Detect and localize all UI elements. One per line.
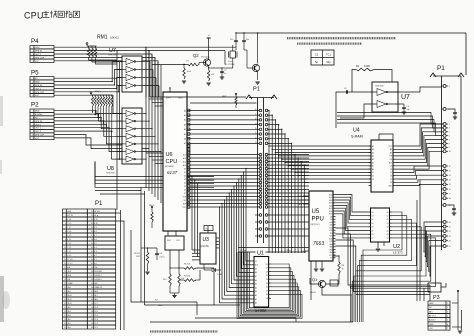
svg-text:D6: D6: [266, 271, 268, 273]
staircase wire to U4: [269, 145, 371, 147]
staircase wire to U4: [275, 152, 371, 154]
wire bottom long: [150, 321, 353, 323]
svg-text:D5: D5: [266, 275, 268, 277]
bottom caption (simulated tiny text): [150, 330, 218, 332]
svg-text:25: 25: [449, 246, 451, 248]
svg-text:VCC: VCC: [35, 61, 40, 63]
scan artifacts: [0, 96, 3, 126]
staircase wire to U4: [304, 181, 371, 183]
svg-text:Q2: Q2: [193, 53, 199, 58]
svg-text:C1: C1: [255, 261, 257, 263]
buffer U8 (74HC368): [122, 108, 142, 164]
svg-text:11: 11: [449, 166, 451, 168]
svg-text:VCC: VCC: [35, 138, 40, 140]
svg-text:A5: A5: [372, 151, 374, 154]
svg-text:A4: A4: [184, 128, 186, 131]
diode D1: [203, 264, 205, 270]
svg-text:40PT: 40PT: [166, 98, 172, 100]
svg-text:P5: P5: [31, 70, 39, 77]
wires P4 to oscillator: [146, 46, 236, 48]
svg-text:U7: U7: [401, 94, 410, 101]
bus verticals to U4/PPU: [268, 111, 270, 254]
svg-text:A2: A2: [372, 161, 374, 164]
svg-text:R/W: R/W: [183, 196, 187, 198]
svg-text:CP 3A0: CP 3A0: [240, 249, 246, 252]
svg-text:A0: A0: [184, 109, 186, 112]
svg-text:9: 9: [449, 147, 450, 149]
svg-text:U7: U7: [109, 48, 116, 54]
svg-text:12: 12: [449, 170, 451, 172]
svg-text:PD 1: PD 1: [94, 327, 98, 329]
svg-text:Q2: Q2: [386, 219, 388, 221]
svg-text:I/4: I/4: [390, 182, 392, 184]
svg-text:1k: 1k: [342, 269, 344, 271]
wire vertical: [148, 51, 150, 191]
wires from P5 to U7 inputs: [54, 77, 117, 79]
svg-text:24: 24: [255, 137, 257, 139]
svg-text:D3: D3: [372, 223, 374, 225]
svg-text:GND: GND: [178, 98, 183, 100]
U4 top pin: [378, 134, 380, 140]
CPU right pins bus B: [187, 154, 191, 156]
svg-text:D1: D1: [266, 290, 268, 292]
bus wires CPU to P1 group A: [190, 110, 260, 112]
svg-text:A6: A6: [372, 148, 374, 151]
svg-text:13: 13: [449, 175, 451, 177]
svg-text:NMI: NMI: [183, 203, 187, 205]
CPU top pin: [169, 88, 171, 92]
svg-text:OE: OE: [266, 298, 268, 300]
svg-text:U1: U1: [257, 251, 264, 257]
svg-text:LS 373: LS 373: [393, 251, 403, 255]
svg-text:A12: A12: [183, 153, 186, 156]
wire vertical: [157, 62, 159, 200]
staircase wire to U4: [279, 155, 371, 157]
wires into CPU left pins: [149, 98, 163, 100]
staircase wire to U4: [301, 178, 371, 180]
svg-text:AUDIO: AUDIO: [429, 319, 436, 322]
small box PZ: [330, 280, 338, 286]
resistor R 100k: [183, 64, 184, 65]
svg-text:12 9a: 12 9a: [286, 250, 291, 252]
svg-text:6137: 6137: [167, 170, 178, 175]
svg-text:4: 4: [449, 128, 450, 130]
wire above U1: [238, 251, 306, 253]
U3 pins: [192, 249, 200, 251]
svg-text:3: 3: [449, 124, 450, 126]
svg-text:PA 2: PA 2: [67, 318, 70, 321]
wire CPU top to rail: [190, 102, 257, 104]
PPU right pins: [333, 194, 336, 196]
svg-text:PPU: PPU: [312, 217, 324, 223]
resistor emitter Q2: [208, 66, 210, 71]
svg-text:Q3: Q3: [386, 223, 388, 225]
svg-text:22: 22: [449, 231, 451, 233]
bus wires CPU to P1 group B: [190, 154, 260, 156]
svg-text:D0: D0: [372, 212, 374, 214]
svg-text:PA 6: PA 6: [94, 298, 97, 301]
svg-text:1: 1: [449, 86, 450, 88]
svg-text:21.47727M: 21.47727M: [225, 64, 235, 66]
svg-text:26: 26: [255, 128, 257, 130]
svg-text:74HC368: 74HC368: [108, 55, 117, 57]
svg-text:100K: 100K: [364, 64, 370, 68]
svg-text:D7: D7: [266, 268, 268, 270]
capacitor 22u: [235, 33, 237, 40]
svg-text:D4: D4: [266, 279, 268, 281]
U2 output loops: [363, 212, 402, 322]
wire staircase below P2: [95, 163, 214, 177]
wire to PPU left stub: [268, 228, 309, 230]
svg-text:I/1: I/1: [372, 172, 374, 174]
wire above U1 second: [238, 247, 309, 249]
svg-text:C1: C1: [315, 53, 319, 57]
svg-text:D3: D3: [184, 179, 186, 181]
svg-text:24: 24: [449, 240, 451, 242]
svg-text:17: 17: [449, 193, 451, 195]
svg-text:1-2M: 1-2M: [217, 274, 222, 276]
svg-text:D0: D0: [184, 168, 186, 170]
svg-text:M2: M2: [184, 200, 186, 202]
svg-text:D6: D6: [372, 234, 374, 236]
IC box below CPU (clock divider): [165, 236, 184, 250]
svg-text:15: 15: [449, 184, 451, 186]
svg-text:PA 12: PA 12: [67, 302, 71, 305]
svg-text:PA 10: PA 10: [67, 294, 71, 297]
wire +5V rail top: [236, 32, 466, 34]
svg-text:VRAM /CS: VRAM /CS: [94, 286, 103, 289]
svg-text:R/W: R/W: [299, 196, 303, 198]
svg-text:PA 3: PA 3: [67, 314, 70, 317]
svg-text:D1: D1: [184, 172, 186, 174]
svg-text:D6: D6: [184, 189, 186, 191]
svg-text:S-RAM: S-RAM: [351, 135, 363, 139]
staircase wire to U4: [282, 158, 371, 160]
svg-text:R4 20k: R4 20k: [184, 276, 190, 278]
svg-text:7: 7: [447, 328, 448, 330]
svg-text:CRAM: CRAM: [67, 282, 73, 285]
capacitor 15p: [243, 33, 245, 40]
svg-text:U3: U3: [203, 237, 210, 243]
svg-text:(LS139): (LS139): [201, 246, 209, 248]
svg-text:D0: D0: [266, 294, 268, 296]
svg-text:A10: A10: [389, 161, 392, 164]
svg-text:CLK: CLK: [176, 240, 181, 242]
svg-text:U5: U5: [312, 209, 320, 215]
wire vertical: [160, 65, 162, 203]
IC U2 LS373: [371, 208, 390, 242]
wires to P1 right lower circles: [424, 222, 443, 252]
transistor Q3: [252, 64, 259, 71]
svg-text:PA 7: PA 7: [94, 294, 97, 297]
wires U4 to P1 right: [396, 124, 444, 146]
svg-text:10: 10: [449, 151, 451, 153]
svg-text:30p: 30p: [326, 60, 331, 64]
svg-text:R5 12k: R5 12k: [184, 264, 190, 266]
svg-text:1u: 1u: [224, 73, 226, 75]
svg-text:6: 6: [449, 136, 450, 138]
svg-text:D5: D5: [372, 230, 374, 232]
svg-text:VCC: VCC: [35, 95, 40, 97]
svg-text:A13: A13: [183, 157, 186, 160]
svg-text:7: 7: [449, 139, 450, 141]
svg-text:CPU: CPU: [166, 159, 178, 165]
svg-text:Q0: Q0: [386, 212, 388, 214]
svg-text:/INT: /INT: [329, 241, 332, 243]
svg-text:R1: R1: [356, 64, 360, 68]
svg-text:25: 25: [255, 133, 257, 135]
svg-text:RM(C): RM(C): [95, 91, 101, 93]
svg-text:P1: P1: [95, 201, 103, 207]
VCC stub for Q2: [208, 38, 210, 59]
wire to mid connector: [244, 49, 247, 51]
svg-text:PA 1: PA 1: [67, 322, 70, 325]
wire vertical: [151, 55, 153, 194]
P3 side wires: [452, 302, 458, 304]
svg-text:10K×11: 10K×11: [110, 36, 119, 40]
svg-text:P2: P2: [31, 102, 39, 109]
svg-text:1.2k: 1.2k: [211, 74, 215, 76]
note text line 1: [287, 37, 396, 39]
bus verticals to U1 left pins: [246, 169, 252, 262]
PPU to U2 wires: [336, 195, 369, 213]
input cap: [346, 90, 348, 94]
wire to PPU left stub: [268, 221, 309, 223]
table C1 TC1: [311, 50, 334, 65]
svg-text:Q7: Q7: [386, 238, 388, 240]
svg-text:Q6: Q6: [386, 234, 388, 236]
P1 right pin circles: [442, 85, 444, 87]
svg-text:24p: 24p: [407, 109, 410, 111]
svg-text:A2: A2: [184, 119, 186, 122]
ground cluster: [170, 292, 179, 294]
svg-text:10k: 10k: [181, 278, 184, 280]
svg-text:D1: D1: [372, 216, 374, 218]
svg-text:23: 23: [255, 142, 257, 144]
svg-text:30: 30: [255, 109, 257, 111]
svg-text:S-RAM: S-RAM: [255, 309, 266, 313]
staircase wire to U4: [298, 175, 371, 177]
wire U7 input from below: [336, 92, 340, 128]
svg-text:U4: U4: [353, 128, 360, 134]
CPU right pins middle stubs: [187, 145, 191, 147]
note text line 2: [297, 42, 362, 44]
capacitor C7: [208, 67, 209, 68]
svg-text:TC1: TC1: [326, 53, 331, 57]
svg-text:(RP2C02): (RP2C02): [311, 224, 320, 226]
verticals mid-left to bottom: [140, 187, 142, 302]
svg-text:30: 30: [64, 327, 66, 329]
capacitor C4: [403, 104, 405, 107]
svg-text:PA 0: PA 0: [67, 326, 70, 329]
wire vertical: [145, 48, 147, 188]
svg-text:28: 28: [255, 119, 257, 121]
svg-text:A7: A7: [184, 142, 186, 145]
capacitor near P1 top: [448, 109, 455, 112]
svg-text:100k: 100k: [187, 71, 191, 73]
svg-text:U8: U8: [107, 166, 114, 172]
U2 bottom pin: [377, 242, 379, 248]
svg-text:D4: D4: [184, 182, 186, 184]
svg-text:AF VCC: AF VCC: [429, 315, 437, 318]
svg-text:2: 2: [447, 307, 448, 309]
svg-text:A5: A5: [184, 133, 186, 136]
svg-text:A14: A14: [183, 160, 186, 163]
wires Q1: [333, 255, 339, 257]
svg-text:A3: A3: [372, 158, 374, 161]
svg-text:I/3: I/3: [372, 179, 374, 181]
svg-text:D5: D5: [184, 186, 186, 188]
PPU left pins: [303, 195, 309, 197]
svg-text:P4: P4: [31, 38, 39, 45]
svg-text:I/7: I/7: [390, 172, 392, 174]
IC U1 S-RAM: [254, 257, 269, 308]
svg-text:A7: A7: [372, 145, 374, 148]
svg-text:PA 8: PA 8: [67, 286, 70, 289]
U3 feeder verticals: [191, 177, 193, 251]
svg-text:18: 18: [449, 198, 451, 200]
svg-text:RM1: RM1: [97, 35, 108, 41]
svg-text:A15: A15: [183, 164, 186, 167]
wires right of P1 table: [120, 210, 122, 330]
bottom right verticals into P3: [429, 285, 431, 301]
staircase wire to U4: [285, 162, 371, 164]
svg-text:D3: D3: [266, 283, 268, 285]
svg-text:(RP2A03): (RP2A03): [165, 165, 174, 168]
U1 labels: [256, 250, 266, 256]
svg-text:D2: D2: [372, 219, 374, 221]
svg-text:A6: A6: [184, 138, 186, 141]
staircase wire to U4: [295, 171, 371, 173]
svg-text:Q1: Q1: [386, 216, 388, 218]
svg-text:P1: P1: [437, 65, 445, 72]
svg-text:D2: D2: [266, 287, 268, 289]
svg-text:10R: 10R: [136, 256, 140, 258]
svg-text:7663: 7663: [313, 241, 324, 247]
wire vertical: [154, 58, 156, 197]
svg-text:20: 20: [449, 222, 451, 224]
svg-text:74HC368: 74HC368: [106, 173, 115, 175]
svg-text:22u: 22u: [230, 39, 233, 41]
svg-text:I/5: I/5: [390, 179, 392, 181]
U1 nested loop wires: [237, 252, 302, 319]
wire to PPU left stub: [268, 214, 309, 216]
svg-text:A9: A9: [390, 151, 392, 154]
resistor R3 10k: [178, 268, 180, 274]
svg-text:23: 23: [449, 236, 451, 238]
resistor network RM1 (second group): [90, 92, 92, 94]
bottom bus wires: [195, 317, 296, 319]
wire top of CPU area: [150, 96, 246, 98]
staircase wire to U4: [272, 148, 371, 150]
svg-text:U2: U2: [393, 244, 400, 250]
svg-text:P3: P3: [433, 295, 440, 301]
svg-text:PA 9: PA 9: [67, 290, 70, 293]
box above P3: [428, 283, 441, 292]
svg-text:8: 8: [449, 143, 450, 145]
IC U3 LS139: [200, 233, 216, 264]
PPU bottom pins: [315, 261, 317, 268]
svg-text:PA13: PA13: [94, 290, 98, 293]
capacitor C8 0.47u: [156, 248, 158, 253]
resistor RP 1k: [338, 256, 340, 262]
wires from P4: [54, 47, 146, 97]
wire verticals left area: [116, 50, 118, 210]
svg-text:5: 5: [447, 320, 448, 322]
svg-text:I/2: I/2: [372, 176, 374, 178]
svg-text:Q1: Q1: [312, 277, 318, 282]
svg-text:A1: A1: [184, 114, 186, 117]
small box R7: [204, 226, 213, 231]
svg-text:D4: D4: [372, 227, 374, 229]
IC U5 PPU (RP2C02): [309, 191, 333, 261]
svg-text:PA 4: PA 4: [67, 310, 70, 313]
svg-text:Q4: Q4: [386, 227, 388, 229]
svg-text:PA 11: PA 11: [67, 298, 71, 301]
svg-text:X'tal: X'tal: [228, 60, 232, 63]
svg-text:P1: P1: [253, 87, 260, 93]
wire PPU aux vertical: [310, 261, 312, 300]
svg-text:D7: D7: [372, 238, 374, 240]
svg-text:16: 16: [449, 189, 451, 191]
svg-text:A13: A13: [299, 203, 302, 206]
extra P1 mid circles: [259, 214, 262, 217]
wire left loop: [131, 230, 197, 302]
svg-text:A0: A0: [372, 168, 374, 171]
svg-text:74HC368: 74HC368: [375, 86, 384, 88]
svg-text:D7: D7: [184, 193, 186, 195]
IC U6 CPU (RP2A03): [163, 92, 187, 231]
svg-text:U6: U6: [166, 152, 173, 158]
svg-text:0.47u: 0.47u: [160, 257, 165, 259]
svg-text:60: 60: [91, 327, 93, 329]
PPU lower pins to bottom bus: [336, 228, 431, 285]
U3 top wire: [207, 226, 209, 233]
wires from P2 to U8 inputs: [54, 111, 122, 114]
staircase wire to U4: [288, 165, 371, 167]
svg-text:A1: A1: [372, 165, 374, 168]
svg-text:PA 5: PA 5: [67, 306, 70, 309]
wire to PPU left stub: [268, 235, 309, 237]
svg-text:PK721: PK721: [134, 253, 141, 255]
wires long to P1 circles: [337, 113, 443, 125]
crystal X1 21.47727MHz: [230, 51, 236, 58]
svg-text:A4: A4: [372, 155, 374, 158]
svg-text:I/6: I/6: [390, 176, 392, 178]
wires from op-amp: [388, 91, 398, 93]
CPU right pins bus A: [187, 110, 191, 112]
svg-text:29: 29: [255, 114, 257, 116]
svg-text:A8: A8: [390, 148, 392, 151]
svg-text:21: 21: [449, 226, 451, 228]
svg-text:Q5: Q5: [386, 230, 388, 232]
svg-text:27: 27: [255, 123, 257, 125]
svg-text:5: 5: [449, 132, 450, 134]
capacitor near P1 mid: [448, 205, 454, 208]
svg-text:RST: RST: [183, 207, 186, 209]
svg-text:A3: A3: [184, 123, 186, 126]
svg-text:D2: D2: [184, 175, 186, 177]
staircase wire to U4: [291, 168, 371, 170]
svg-text:14: 14: [449, 180, 451, 182]
svg-text:CPU: CPU: [24, 10, 44, 20]
wires crystal: [232, 45, 234, 51]
svg-text:I/8: I/8: [390, 169, 392, 171]
